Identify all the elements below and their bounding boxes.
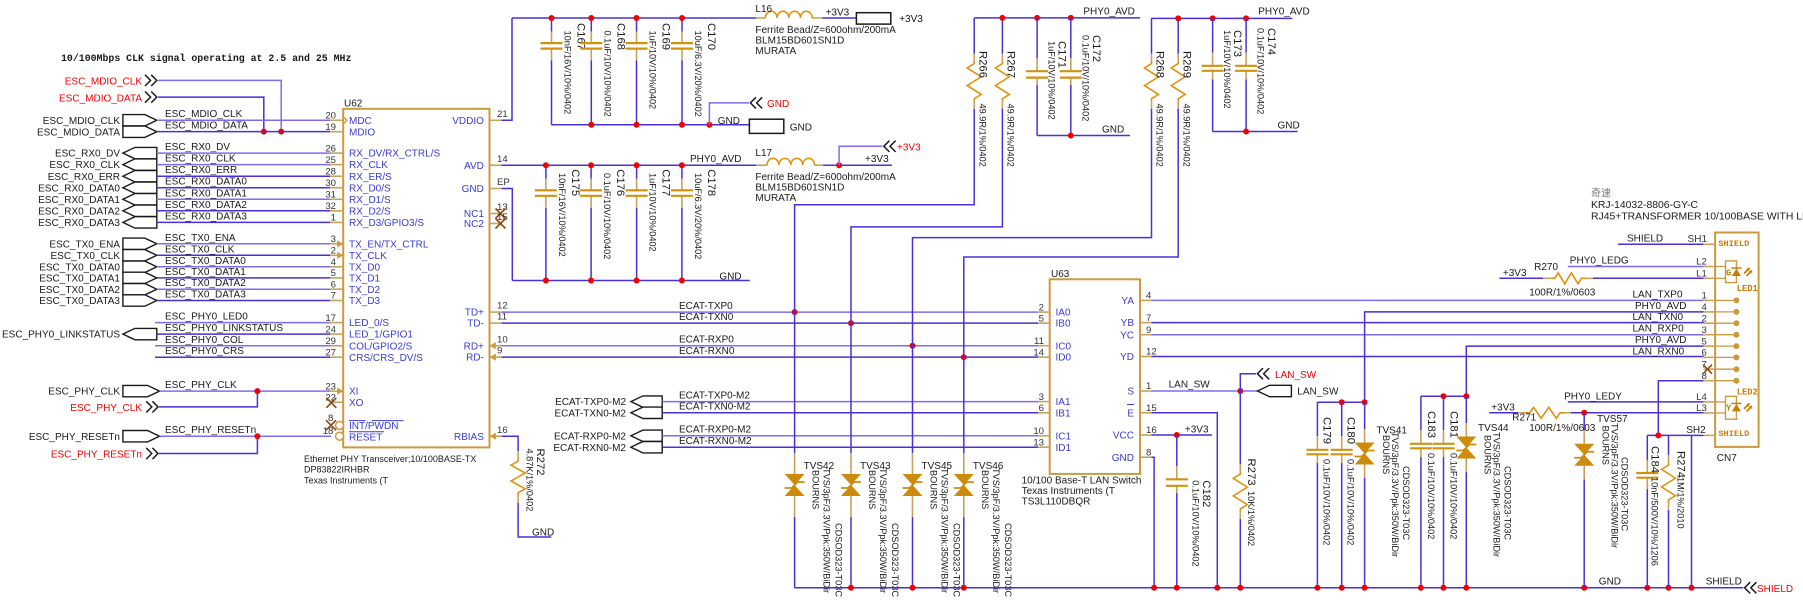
resistor R273: [1239, 391, 1241, 464]
svg-text:RX_ER/S: RX_ER/S: [349, 172, 392, 183]
connector CN7 pin 8: [1704, 380, 1716, 382]
svg-text:ESC_RX0_CLK: ESC_RX0_CLK: [49, 160, 120, 171]
ic U62 pin 16 RBIAS: [490, 435, 502, 437]
svg-text:R268: R268: [1154, 51, 1166, 78]
wire net PHY0_AVD to CN7 pin5: [1466, 346, 1703, 396]
svg-text:C170: C170: [705, 23, 717, 50]
svg-text:C173: C173: [1231, 30, 1243, 57]
svg-text:SHIELD: SHIELD: [1757, 584, 1793, 595]
ic U63 pin 8 GND: [1140, 456, 1152, 458]
junction TVS57 on L3: [1581, 410, 1587, 416]
svg-text:C176: C176: [614, 169, 626, 196]
svg-text:TVS/3pF/3.3V/Ppk:350W/BiDir: TVS/3pF/3.3V/Ppk:350W/BiDir: [1390, 432, 1400, 557]
svg-text:GND: GND: [1102, 125, 1124, 136]
svg-text:RESET: RESET: [349, 432, 382, 443]
svg-text:SHIELD: SHIELD: [1627, 233, 1663, 244]
capacitor C179: [1316, 402, 1318, 436]
svg-text:PHY0_AVD: PHY0_AVD: [1258, 7, 1310, 18]
junction C177 top: [634, 162, 640, 168]
wire net SH2: [1692, 434, 1704, 436]
svg-text:+3V3: +3V3: [865, 154, 889, 165]
wire +3V3 top rail: [512, 17, 756, 19]
svg-text:0.1uF/10V/10%/0402: 0.1uF/10V/10%/0402: [1321, 459, 1331, 545]
svg-text:TVS/3pF/3.3V/Ppk:350W/BiDir: TVS/3pF/3.3V/Ppk:350W/BiDir: [940, 468, 950, 593]
svg-text:ECAT-RXP0-M2: ECAT-RXP0-M2: [554, 431, 626, 442]
svg-text:4.87K/1%/0402: 4.87K/1%/0402: [525, 449, 535, 512]
wire net ESC_PHY0_COL: [155, 345, 331, 347]
svg-text:14: 14: [1033, 347, 1044, 358]
ic U62 pin 14 AVD: [490, 164, 502, 166]
ic U63 pin 16 VCC: [1140, 434, 1152, 436]
svg-text:ID0: ID0: [1056, 353, 1072, 364]
svg-text:ESC_TX0_DATA2: ESC_TX0_DATA2: [165, 278, 246, 289]
svg-text:CDSOD323-T03C: CDSOD323-T03C: [1003, 523, 1013, 597]
svg-text:ESC_RX0_ERR: ESC_RX0_ERR: [48, 172, 120, 183]
svg-text:LED_1/GPIO1: LED_1/GPIO1: [349, 330, 413, 341]
svg-text:49.9R/1%/0402: 49.9R/1%/0402: [1155, 104, 1165, 167]
svg-text:R273: R273: [1245, 459, 1257, 486]
svg-text:KRJ-14032-8806-GY-C: KRJ-14032-8806-GY-C: [1591, 200, 1699, 211]
junction bank2 bottom: [543, 278, 549, 284]
svg-text:8: 8: [1146, 447, 1151, 458]
wire net LAN_SW: [1152, 390, 1258, 392]
svg-text:Texas Instruments (T: Texas Instruments (T: [304, 475, 389, 485]
svg-text:C181: C181: [1448, 411, 1460, 438]
junction C170 top: [679, 15, 685, 21]
svg-text:ESC_PHY_RESETn: ESC_PHY_RESETn: [51, 450, 142, 461]
ic U62 pin 6 TX_D2: [330, 288, 343, 290]
svg-text:ESC_TX0_DATA1: ESC_TX0_DATA1: [39, 274, 120, 285]
svg-text:BOURNS: BOURNS: [1601, 426, 1611, 465]
junction ECAT-RXP0 TVS45: [910, 343, 916, 349]
svg-text:TX_D2: TX_D2: [349, 285, 381, 296]
ic U62 pin 11 TD-: [490, 322, 502, 324]
svg-text:BOURNS: BOURNS: [867, 470, 877, 509]
svg-text:TVS/3pF/3.3V/Ppk:350W/BiDir: TVS/3pF/3.3V/Ppk:350W/BiDir: [1492, 432, 1502, 557]
capacitor C183: [1420, 396, 1422, 430]
svg-text:PHY0_AVD: PHY0_AVD: [690, 154, 742, 165]
tvs diode TVS43: [850, 323, 852, 453]
svg-text:GND: GND: [767, 99, 789, 110]
svg-text:ESC_TX0_DATA2: ESC_TX0_DATA2: [39, 285, 120, 296]
svg-text:+3V3: +3V3: [1503, 268, 1527, 279]
svg-text:奇速: 奇速: [1591, 187, 1611, 200]
ic U63 pin 10 IC1: [1038, 435, 1050, 437]
svg-text:Y: Y: [1726, 404, 1732, 414]
wire net ESC_TX0_CLK: [157, 254, 331, 256]
connector CN7 pin L3: [1704, 412, 1716, 414]
wire net LAN_TXP0: [1152, 299, 1704, 301]
svg-text:TD+: TD+: [465, 308, 484, 319]
ic U63 pin 5 IB0: [1038, 322, 1050, 324]
svg-text:MDIO: MDIO: [349, 127, 375, 138]
svg-text:ESC_RX0_CLK: ESC_RX0_CLK: [165, 154, 236, 165]
svg-text:TX_CLK: TX_CLK: [349, 251, 387, 262]
svg-text:RJ45+TRANSFORMER 10/100BASE WI: RJ45+TRANSFORMER 10/100BASE WITH LED: [1591, 211, 1803, 222]
svg-text:ESC_TX0_DATA3: ESC_TX0_DATA3: [165, 290, 246, 301]
wire group TVS41 top rail: [1317, 401, 1364, 403]
svg-text:18: 18: [323, 426, 334, 437]
svg-text:C171: C171: [1056, 41, 1068, 68]
capacitor C170: [681, 18, 683, 32]
svg-text:YB: YB: [1121, 318, 1135, 329]
svg-text:SH2: SH2: [1686, 425, 1706, 436]
capacitor C181: [1443, 396, 1445, 430]
off-sheet flag +3V3: [839, 146, 882, 165]
junction ECAT-TXP0 TVS42: [792, 309, 798, 315]
wire net ESC_RX0_DATA3: [157, 221, 331, 223]
capacitor C178: [681, 165, 683, 179]
svg-text:G: G: [1726, 268, 1731, 278]
svg-text:10: 10: [1033, 426, 1044, 437]
svg-text:GND: GND: [718, 116, 740, 127]
wire net ESC_PHY0_CRS: [155, 356, 331, 358]
svg-text:GND: GND: [1278, 121, 1300, 132]
junction bank1 bottom: [588, 122, 594, 128]
svg-text:PHY0_AVD: PHY0_AVD: [1083, 7, 1135, 18]
svg-text:YA: YA: [1121, 296, 1134, 307]
power symbol GND R272: [518, 503, 551, 537]
wire L16 to +3V3 port: [822, 17, 856, 19]
svg-text:GND: GND: [790, 123, 812, 134]
junction pin8 on SH2: [1655, 432, 1661, 438]
svg-text:R270: R270: [1534, 262, 1558, 273]
svg-text:ESC_TX0_CLK: ESC_TX0_CLK: [51, 251, 121, 262]
capacitor C172: [1070, 18, 1072, 58]
svg-text:L2: L2: [1696, 257, 1707, 268]
wire net ESC_PHY_CLK: [160, 390, 332, 392]
wire VDDIO pin21 riser: [502, 18, 512, 120]
svg-text:VDDIO: VDDIO: [452, 116, 484, 127]
svg-text:L3: L3: [1696, 403, 1707, 414]
svg-text:10uF/6.3V/20%/0402: 10uF/6.3V/20%/0402: [693, 31, 703, 117]
led LED1 green in CN7: [1715, 266, 1725, 268]
resistor R268: [1151, 18, 1153, 54]
wire net ESC_TX0_DATA0: [157, 266, 331, 268]
svg-text:R271: R271: [1512, 413, 1536, 424]
svg-text:5: 5: [1039, 313, 1044, 324]
svg-text:ESC_RX0_DATA3: ESC_RX0_DATA3: [165, 211, 247, 222]
svg-text:TX_D3: TX_D3: [349, 296, 381, 307]
svg-text:1M/1%/2010: 1M/1%/2010: [1676, 477, 1686, 529]
svg-text:10/100 Base-T LAN Switch: 10/100 Base-T LAN Switch: [1022, 476, 1142, 487]
svg-text:C179: C179: [1320, 417, 1332, 444]
ic U63 pin 9 YC: [1140, 334, 1152, 336]
svg-text:1: 1: [1146, 381, 1151, 392]
capacitor C171: [1036, 18, 1038, 58]
svg-text:IB0: IB0: [1056, 319, 1071, 330]
resistor R269: [1177, 18, 1179, 54]
wire net ESC_MDIO_CLK: [157, 119, 331, 121]
svg-text:ECAT-RXP0-M2: ECAT-RXP0-M2: [679, 425, 751, 436]
svg-text:100R/1%/0603: 100R/1%/0603: [1529, 288, 1596, 299]
svg-text:9: 9: [1146, 325, 1151, 336]
connector CN7 pin L1: [1704, 277, 1716, 279]
ic U62 DP83822 body: [343, 109, 489, 448]
svg-text:PHY0_LEDY: PHY0_LEDY: [1564, 392, 1622, 403]
wire EP pad riser: [502, 189, 513, 281]
ic U63 TS3L110 body: [1050, 279, 1140, 474]
wire net ESC_MDIO_DATA: [157, 131, 331, 133]
capacitor C180: [1341, 402, 1343, 436]
svg-text:RBIAS: RBIAS: [454, 432, 484, 443]
svg-text:0.1uF/10V/10%/0402: 0.1uF/10V/10%/0402: [602, 173, 612, 259]
svg-text:10: 10: [497, 334, 508, 345]
junction rail group1: [999, 15, 1005, 21]
ic U62 pin 30 RX_D0/S: [330, 187, 343, 189]
svg-text:CN7: CN7: [1717, 453, 1737, 464]
svg-text:ESC_PHY_RESETn: ESC_PHY_RESETn: [29, 432, 120, 443]
svg-text:L17: L17: [755, 148, 772, 159]
svg-text:ESC_RX0_ERR: ESC_RX0_ERR: [165, 165, 237, 176]
capacitor C167: [551, 18, 553, 32]
svg-text:R266: R266: [976, 51, 988, 78]
svg-text:3: 3: [1039, 392, 1044, 403]
svg-text:49.9R/1%/0402: 49.9R/1%/0402: [1006, 104, 1016, 167]
svg-text:INT/PWDN: INT/PWDN: [349, 421, 398, 432]
svg-text:TS3L110DBQR: TS3L110DBQR: [1022, 497, 1091, 508]
capacitor C174: [1245, 18, 1247, 52]
wire AVD pin14 rail PHY0_AVD: [502, 164, 756, 166]
svg-text:CDSOD323-T03C: CDSOD323-T03C: [834, 523, 844, 597]
svg-text:C182: C182: [1200, 480, 1212, 507]
svg-text:7: 7: [331, 291, 336, 302]
capacitor C176: [590, 165, 592, 179]
svg-text:17: 17: [325, 313, 336, 324]
ic U62 pin 1 RX_D3/GPIO3/S: [330, 221, 343, 223]
connector CN7 pin 7: [1704, 368, 1716, 370]
wire net ESC_TX0_DATA3: [157, 300, 331, 302]
svg-text:R269: R269: [1180, 51, 1192, 78]
wire net ESC_PHY0_LINKSTATUS: [157, 333, 331, 335]
svg-text:25: 25: [325, 155, 336, 166]
wire L17 to +3V3: [823, 164, 892, 166]
svg-text:14: 14: [497, 154, 508, 165]
svg-text:ECAT-RXP0: ECAT-RXP0: [679, 335, 734, 346]
svg-text:R267: R267: [1005, 51, 1017, 78]
connector CN7 body: [1715, 233, 1759, 447]
svg-text:30: 30: [325, 178, 336, 189]
resistor R267: [1001, 18, 1003, 54]
wire net ECAT-TXN0-M2: [662, 412, 1038, 414]
svg-text:BLM15BD601SN1D: BLM15BD601SN1D: [755, 183, 844, 194]
svg-text:20: 20: [325, 111, 336, 122]
svg-text:6: 6: [1039, 403, 1044, 414]
tvs diode TVS45: [912, 346, 914, 453]
ic U62 pin 17 LED_0/S: [330, 322, 343, 324]
ic U62 pin 25 RX_CLK: [330, 164, 343, 166]
junction ECAT-RXN0 TVS46: [961, 354, 967, 360]
wire net ESC_RX0_DATA0: [157, 187, 331, 189]
tvs diode TVS46: [963, 357, 965, 453]
svg-text:ESC_RX0_DATA2: ESC_RX0_DATA2: [38, 206, 120, 217]
wire net LAN_RXP0: [1152, 334, 1704, 336]
svg-text:0.1uF/10V/10%/0402: 0.1uF/10V/10%/0402: [1081, 35, 1091, 121]
svg-text:ESC_TX0_ENA: ESC_TX0_ENA: [165, 233, 236, 244]
ic U62 pin EP GND: [490, 188, 502, 190]
svg-text:ESC_PHY0_LINKSTATUS: ESC_PHY0_LINKSTATUS: [2, 330, 120, 341]
wire net ESC_RX0_DV: [157, 152, 331, 154]
ic U63 pin 6 IB1: [1038, 412, 1050, 414]
ic U63 pin 7 YB: [1140, 322, 1152, 324]
connector CN7 pin L4: [1704, 401, 1716, 403]
off-sheet flag SHIELD: [1745, 582, 1751, 593]
svg-text:R272: R272: [534, 449, 546, 476]
svg-text:32: 32: [325, 201, 336, 212]
svg-text:ESC_RX0_DATA0: ESC_RX0_DATA0: [165, 177, 247, 188]
ic U62 pin 32 RX_D2/S: [330, 210, 343, 212]
ic U62 pin 27 CRS/CRS_DV/S: [330, 356, 343, 358]
svg-text:COL/GPIO2/S: COL/GPIO2/S: [349, 341, 413, 352]
svg-text:29: 29: [325, 336, 336, 347]
svg-text:7: 7: [1146, 313, 1151, 324]
ic U63 pin 1 S: [1140, 390, 1152, 392]
svg-text:ESC_RX0_DV: ESC_RX0_DV: [55, 149, 120, 160]
resistor R274: [1668, 435, 1670, 455]
svg-text:LAN_SW: LAN_SW: [1275, 370, 1317, 381]
tvs diode TVS44: [1465, 396, 1467, 423]
wire net ECAT-RXP0: [502, 345, 1038, 347]
svg-text:0.1uF/10V/10%/0402: 0.1uF/10V/10%/0402: [1449, 453, 1459, 539]
wire GND rail group2: [1213, 131, 1298, 133]
resistor R272: [517, 451, 519, 458]
wire net ESC_TX0_ENA: [157, 243, 331, 245]
svg-text:16: 16: [497, 425, 508, 436]
wire PHY0_AVD rail group2: [1152, 17, 1293, 19]
junction ESC_PHY_RESETn: [254, 433, 260, 439]
svg-text:U62: U62: [344, 99, 363, 110]
wire VCC +3V3: [1152, 434, 1212, 436]
svg-text:LED_0/S: LED_0/S: [349, 318, 389, 329]
svg-text:1: 1: [1701, 291, 1706, 302]
svg-text:2: 2: [331, 246, 336, 257]
svg-text:ECAT-TXP0: ECAT-TXP0: [679, 301, 733, 312]
svg-text:RX_DV/RX_CTRL/S: RX_DV/RX_CTRL/S: [349, 149, 440, 160]
svg-text:XI: XI: [349, 387, 358, 398]
connector CN7 pin L2: [1704, 266, 1716, 268]
junction C175 top: [543, 162, 549, 168]
svg-text:ESC_PHY0_LINKSTATUS: ESC_PHY0_LINKSTATUS: [165, 323, 283, 334]
off-sheet flag GND: [709, 103, 749, 125]
svg-text:19: 19: [325, 122, 336, 133]
svg-text:ESC_TX0_DATA3: ESC_TX0_DATA3: [39, 296, 120, 307]
svg-text:C169: C169: [660, 23, 672, 50]
wire net ECAT-RXN0: [502, 356, 1038, 358]
ic U62 pin 29 COL/GPIO2/S: [330, 345, 343, 347]
junction ECAT-TXN0 TVS43: [848, 320, 854, 326]
svg-text:10/100Mbps CLK signal operatin: 10/100Mbps CLK signal operating at 2.5 a…: [61, 53, 351, 64]
svg-text:CDSOD323-T03C: CDSOD323-T03C: [890, 523, 900, 597]
svg-text:CDSOD323-T03C: CDSOD323-T03C: [1401, 466, 1411, 540]
svg-text:4: 4: [1146, 291, 1152, 302]
svg-text:BOURNS: BOURNS: [811, 470, 821, 509]
svg-text:MDC: MDC: [349, 116, 372, 127]
svg-text:ESC_TX0_CLK: ESC_TX0_CLK: [165, 244, 235, 255]
svg-text:ESC_PHY0_CRS: ESC_PHY0_CRS: [165, 346, 244, 357]
wire R269 to TVS column: [964, 109, 1178, 357]
wire net ESC_TX0_DATA1: [157, 277, 331, 279]
ic U63 pin 13 ID1: [1038, 446, 1050, 448]
svg-text:BOURNS: BOURNS: [1381, 435, 1391, 474]
ic U62 pin 12 TD+: [490, 311, 502, 313]
ic U62 pin 24 LED_1/GPIO1: [330, 333, 343, 335]
svg-text:1uF/10V/10%/0402: 1uF/10V/10%/0402: [1047, 41, 1057, 120]
svg-text:5: 5: [1701, 336, 1706, 347]
capacitor C169: [636, 18, 638, 32]
svg-text:TD-: TD-: [467, 319, 484, 330]
wire net ESC_PHY0_LED0: [155, 322, 331, 324]
svg-text:1uF/10V/10%/0402: 1uF/10V/10%/0402: [1222, 30, 1232, 109]
svg-text:CRS/CRS_DV/S: CRS/CRS_DV/S: [349, 353, 423, 364]
svg-text:ECAT-TXN0-M2: ECAT-TXN0-M2: [679, 402, 751, 413]
svg-text:ECAT-RXN0-M2: ECAT-RXN0-M2: [679, 436, 752, 447]
svg-text:YD: YD: [1120, 352, 1134, 363]
ic U62 pin 4 TX_D0: [330, 266, 343, 268]
connector CN7 internal pin dots: [1715, 299, 1736, 301]
tvs diode TVS42: [794, 312, 796, 453]
svg-text:10uF/6.3V/20%/0402: 10uF/6.3V/20%/0402: [693, 173, 703, 259]
svg-text:TX_EN/TX_CTRL: TX_EN/TX_CTRL: [349, 239, 429, 250]
ic U62 pin 9 RD-: [490, 356, 502, 358]
svg-text:3: 3: [1701, 325, 1706, 336]
svg-text:TVS/3pF/3.3V/Ppk:350W/BiDir: TVS/3pF/3.3V/Ppk:350W/BiDir: [991, 468, 1001, 593]
svg-text:TVS/3pF/3.3V/Ppk:350W/BiDir: TVS/3pF/3.3V/Ppk:350W/BiDir: [878, 468, 888, 593]
svg-text:CDSOD323-T03C: CDSOD323-T03C: [1503, 466, 1513, 540]
wire ESC_PHY_RESETn flag riser: [159, 436, 257, 453]
connector CN7 pin SH1: [1704, 243, 1716, 245]
svg-text:10nF/16V/10%/0402: 10nF/16V/10%/0402: [563, 31, 573, 115]
junction C169 top: [634, 15, 640, 21]
svg-text:ESC_MDIO_CLK: ESC_MDIO_CLK: [165, 109, 243, 120]
capacitor C182: [1176, 435, 1178, 466]
svg-text:C178: C178: [705, 169, 717, 196]
svg-text:CDSOD323-T03C: CDSOD323-T03C: [1620, 457, 1630, 531]
svg-text:0.1uF/10V/10%/0402: 0.1uF/10V/10%/0402: [1190, 480, 1200, 566]
wire net ESC_RX0_DATA1: [157, 198, 331, 200]
wire net ECAT-TXN0: [502, 322, 1038, 324]
svg-text:31: 31: [325, 190, 336, 201]
ic U62 pin 5 TX_D1: [330, 277, 343, 279]
svg-text:RX_CLK: RX_CLK: [349, 160, 388, 171]
svg-text:C172: C172: [1090, 35, 1102, 62]
junction LAN_SW: [1237, 388, 1243, 394]
ic U63 pin 4 YA: [1140, 299, 1152, 301]
capacitor C173: [1212, 18, 1214, 52]
ic U62 pin 13 NC1: [490, 213, 502, 215]
svg-text:ESC_PHY_CLK: ESC_PHY_CLK: [70, 403, 142, 414]
svg-text:+3V3: +3V3: [899, 14, 923, 25]
ferrite bead L16: [756, 17, 765, 19]
svg-text:BOURNS: BOURNS: [980, 470, 990, 509]
ic U62 pin 19 MDIO: [330, 131, 343, 133]
svg-text:24: 24: [325, 324, 336, 335]
svg-text:C180: C180: [1345, 417, 1357, 444]
svg-text:LAN_TXN0: LAN_TXN0: [1633, 312, 1684, 323]
svg-text:10K/1%/0402: 10K/1%/0402: [1246, 491, 1256, 546]
svg-text:AVD: AVD: [464, 161, 484, 172]
ic U62 pin 23 XI: [330, 390, 343, 392]
svg-text:ESC_TX0_ENA: ESC_TX0_ENA: [49, 239, 120, 250]
connector CN7 pin 1: [1704, 299, 1716, 301]
svg-text:ESC_MDIO_CLK: ESC_MDIO_CLK: [65, 77, 143, 88]
svg-text:IB1: IB1: [1056, 408, 1071, 419]
ic U62 pin 10 RD+: [490, 345, 502, 347]
ic U62 pin 22 XO no-connect: [330, 401, 343, 403]
svg-text:MURATA: MURATA: [755, 46, 796, 57]
svg-text:IA0: IA0: [1056, 308, 1071, 319]
junction on MDIO wire: [261, 129, 267, 135]
svg-text:LAN_SW: LAN_SW: [1169, 379, 1211, 390]
